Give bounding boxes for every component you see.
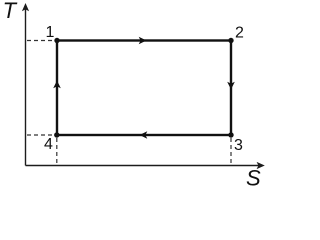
dashed line: T2 level to point 4: [27, 134, 53, 136]
dashed line: point 4 down to S axis: [56, 138, 58, 165]
node 4 dot: [54, 132, 59, 137]
svg-text:S: S: [246, 166, 261, 191]
node 2 dot: [228, 38, 233, 43]
axis S (horizontal): [26, 165, 260, 167]
axis S arrowhead: [257, 162, 265, 169]
node 3 dot: [228, 132, 233, 137]
arrow 3->4 (bottom edge, leftward): [140, 131, 148, 139]
axis T arrowhead: [22, 3, 29, 11]
arrow 2->3 (right edge, downward): [227, 82, 235, 90]
cycle rectangle 1-2-3-4: [57, 41, 231, 136]
svg-text:T: T: [3, 0, 18, 23]
dashed line: T1 level to point 1: [27, 40, 55, 42]
dashed line: point 3 down to S axis: [230, 138, 232, 165]
arrow 4->1 (left edge, upward): [53, 81, 61, 89]
svg-text:1: 1: [46, 24, 55, 41]
svg-text:3: 3: [234, 137, 243, 154]
arrow 1->2 (top edge, rightward): [139, 37, 147, 45]
axis T (vertical): [25, 9, 27, 166]
svg-text:4: 4: [44, 136, 53, 153]
svg-text:2: 2: [235, 24, 244, 41]
node 1 dot: [54, 38, 59, 43]
